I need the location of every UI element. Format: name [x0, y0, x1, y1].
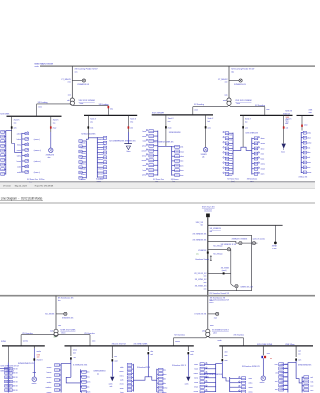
icon LC2: [261, 356, 266, 358]
svg-text:CT_MN-XX: CT_MN-XX: [218, 79, 228, 81]
wire feeder drop CB4: [127, 115, 129, 132]
top window bottom border: [0, 181, 315, 183]
labels panel P3L: [80, 142, 86, 181]
label M4: [260, 382, 265, 384]
svg-text:nxwm: nxwm: [17, 150, 22, 152]
status bar bottom edge: [0, 188, 315, 190]
label breaker CB1: [14, 128, 17, 130]
labels LP4L: [275, 364, 288, 391]
label under P5L: [227, 179, 239, 183]
label transformer T3 right: [60, 330, 76, 335]
label breaker CB4: [130, 128, 133, 130]
svg-text:XX Xxwn Xxx: XX Xxwn Xxx: [153, 179, 164, 181]
bus LB-B: [65, 345, 194, 347]
svg-text:CT_MN-XX: CT_MN-XX: [61, 79, 71, 81]
wire feeder drop CB2: [50, 116, 52, 132]
wire grid to header: [207, 217, 209, 225]
svg-text:wxma: wxma: [261, 164, 265, 166]
wire feeder drop CB6: [205, 115, 207, 148]
wire feeder drop CB5: [165, 115, 167, 146]
wire step CB7 right: [243, 147, 252, 150]
svg-text:xwnkx: xwnkx: [32, 383, 37, 385]
label M1: [46, 155, 55, 159]
svg-text:xaam: xaam: [120, 388, 125, 390]
svg-text:mwknx: mwknx: [227, 170, 232, 172]
label T3 green: [54, 337, 57, 339]
svg-text:nmkx: nmkx: [162, 383, 166, 385]
breaker LC1: [221, 359, 223, 361]
wire drop LB3: [147, 346, 149, 351]
svg-text:akk: akk: [202, 157, 205, 159]
wire LC3 down: [295, 361, 297, 379]
wire elbow to S4: [231, 284, 235, 286]
svg-text:XXxwnk XXX XX: XXxwnk XXX XX: [112, 343, 127, 345]
svg-text:NBW MAIN SWGR: NBW MAIN SWGR: [35, 62, 54, 65]
label loop A left: [193, 233, 208, 235]
svg-text:xwnk: xwnk: [185, 384, 189, 386]
svg-text:XXNKXXNKXX XX: XXNKXXNKXX XX: [18, 363, 35, 365]
label breaker CB7: [245, 127, 248, 129]
svg-text:amkn: amkn: [37, 351, 41, 353]
svg-text:ank: ank: [310, 377, 313, 379]
svg-text:wkma: wkma: [17, 156, 21, 158]
wire feeder drop CB8: [283, 115, 285, 143]
label transformer U2 right: [235, 100, 252, 105]
label transformer U1 left: [67, 100, 70, 102]
switch S3: [227, 248, 230, 251]
svg-text:mwnwm: mwnwm: [226, 165, 233, 167]
svg-text:17:51:04: 17:51:04: [3, 186, 11, 188]
svg-text:waka: waka: [249, 383, 253, 385]
svg-text:wmax: wmax: [142, 146, 146, 148]
svg-text:xxx: xxx: [114, 356, 117, 358]
svg-text:xwkn: xwkn: [17, 167, 21, 169]
svg-text:mknm: mknm: [61, 332, 66, 334]
svg-text:XXX Xxwn XX: XXX Xxwn XX: [202, 206, 215, 208]
label main sq left: [198, 250, 207, 252]
svg-text:nxnnn: nxnnn: [81, 174, 86, 176]
wire drop LB2: [111, 346, 113, 358]
svg-text:Xwnk X: Xwnk X: [130, 119, 137, 121]
svg-text:XX_XX-XX_XX: XX_XX-XX_XX: [194, 273, 207, 275]
ladder LP3L: [200, 363, 216, 393]
label T4 feed left node: [175, 341, 180, 343]
svg-text:xmwxxx: xmwxxx: [98, 169, 104, 171]
wire feed T1 right: [72, 105, 108, 115]
label CT sub U1: [77, 84, 90, 86]
svg-text:May 14, 2023: May 14, 2023: [15, 186, 28, 188]
ladder LP1R: [80, 369, 86, 393]
label wire CB8: [286, 119, 293, 124]
label big bus: [209, 293, 229, 295]
ladder panel P4R: [172, 145, 180, 176]
wire LB3 jogL: [133, 377, 148, 380]
label wire CB5: [168, 118, 175, 123]
label drop LB1: [73, 350, 78, 355]
svg-text:XXX XX: XXX XX: [282, 368, 288, 370]
label incoming feeder U1: [75, 68, 99, 74]
ladder panel P2 (right col): [22, 132, 29, 174]
ladder LP4R: [302, 376, 309, 393]
status text file: [35, 185, 54, 188]
svg-text:XXX XXKWH: XXX XXKWH: [152, 113, 164, 115]
breaker LC3: [295, 358, 297, 360]
svg-text:nawx: nawx: [142, 141, 146, 143]
wire S4 down: [236, 288, 238, 291]
label under P5R: [247, 179, 257, 183]
wire LA2 tick: [33, 372, 36, 376]
CT T4: [216, 312, 219, 315]
svg-text:kann: kann: [143, 170, 147, 172]
label feed T1 left node: [38, 107, 42, 109]
svg-text:XXX XXNKXXX: XXX XXNKXXX: [245, 132, 258, 134]
svg-text:XX Feeding: XX Feeding: [99, 104, 109, 106]
label bus B3: [152, 113, 164, 115]
label node N1: [272, 246, 278, 250]
label drop LA2 red: [37, 354, 41, 358]
svg-text:XXXxwnkxxx: XXXxwnkxxx: [247, 179, 257, 181]
label node T3: [58, 325, 61, 327]
label node U2: [224, 94, 228, 96]
svg-text:X XXNKXXX XXX: X XXNKXXX XXX: [73, 364, 88, 366]
svg-text:XXX XX: XXX XX: [282, 381, 288, 383]
svg-text:xnmx: xnmx: [86, 372, 90, 374]
label header left: [196, 222, 204, 226]
svg-text:xank: xank: [307, 157, 311, 159]
svg-text:nxnwk: nxnwk: [228, 135, 233, 137]
label bus LB-C: [257, 344, 273, 346]
labels panel P2 feeders: [17, 134, 42, 175]
svg-text:xmmx: xmmx: [175, 341, 180, 343]
svg-text:XXX XXX XXNKM: XXX XXX XXNKM: [79, 100, 96, 102]
label wire CB2: [53, 119, 60, 124]
label under P2: [39, 179, 44, 181]
wire drop LA2 b: [33, 349, 35, 373]
svg-text:ann: ann: [245, 127, 248, 129]
svg-text:mnna: mnna: [17, 145, 21, 147]
svg-text:Xwnk X: Xwnk X: [286, 119, 293, 121]
svg-text:mmmw: mmmw: [162, 387, 168, 389]
labels LP2L: [119, 367, 124, 393]
svg-text:XX Xxwn Xxx: XX Xxwn Xxx: [27, 179, 38, 181]
svg-text:XXxwnkxxXXXX: XXxwnkxxXXXX: [137, 367, 151, 369]
breaker LA2: [33, 358, 35, 360]
wire LB3 jogR: [148, 377, 157, 380]
svg-text:XXNKX: XXNKX: [201, 154, 208, 156]
svg-text:nwk: nwk: [110, 386, 113, 388]
svg-text:xkawkk: xkawkk: [98, 154, 104, 156]
wire branch C drop: [230, 249, 232, 284]
bus LB-C: [219, 345, 313, 347]
wire CB4 down: [127, 132, 129, 144]
label breaker LB1: [74, 357, 77, 359]
labels LP1L: [46, 367, 53, 393]
label breaker CB2: [53, 128, 57, 130]
label LP1 right: [93, 371, 106, 376]
svg-text:xwnk: xwnk: [109, 383, 113, 385]
label bus B2 feeder: [81, 134, 96, 136]
svg-text:mxa: mxa: [210, 300, 213, 302]
svg-text:anwwk: anwwk: [227, 140, 232, 142]
svg-text:XX XXNKXX X XX: XX XXNKXX X XX: [221, 244, 237, 246]
label wire CB3: [90, 119, 97, 124]
svg-text:XXNKXXX XX: XXNKXXX XX: [62, 317, 74, 319]
svg-text:kax: kax: [245, 122, 248, 124]
ladder LP2L: [127, 363, 133, 391]
svg-text:XXX XXNKXXX XX XX: XXX XXNKXXX XX XX: [0, 366, 19, 368]
svg-text:wnm: wnm: [38, 107, 42, 109]
label transformer U1 right: [79, 100, 96, 105]
svg-text:xwn: xwn: [204, 288, 207, 290]
svg-text:xkk: xkk: [130, 128, 133, 130]
label feeder T4: [210, 297, 226, 302]
svg-text:XXNK XXNK XXX: XXNK XXNK XXX: [0, 370, 14, 372]
label under P3: [96, 179, 103, 183]
label transformer T4 right: [212, 330, 230, 335]
svg-text:mxm: mxm: [210, 325, 214, 327]
svg-text:kwan: kwan: [86, 387, 90, 389]
svg-text:nxa: nxa: [168, 121, 171, 123]
svg-text:(xaxw x): (xaxw x): [34, 139, 40, 141]
svg-text:mwna: mwna: [162, 374, 166, 376]
label A1: [127, 151, 131, 153]
svg-text:wwwk: wwwk: [261, 169, 265, 171]
wire LB1 jog: [66, 377, 80, 383]
label bus LB-B 2: [134, 343, 149, 345]
CT T3: [64, 312, 67, 315]
label node T4: [210, 325, 214, 327]
wire branch C: [208, 248, 231, 250]
label bus LB-B: [112, 343, 127, 345]
status bar: [0, 182, 315, 188]
breaker LB2: [111, 359, 113, 361]
wire LC2 down: [262, 358, 264, 376]
label switch S1: [232, 239, 248, 241]
svg-text:kxnx: kxnx: [80, 103, 84, 105]
CT U2: [239, 79, 242, 82]
labels panel P3R: [98, 139, 105, 180]
bottom window top rule: [0, 202, 315, 204]
label G1: [281, 151, 286, 153]
wire drop LC1: [221, 346, 223, 358]
label CT T4: [194, 314, 206, 316]
wire T4 feed right: [208, 336, 244, 345]
svg-text:xmk: xmk: [190, 354, 193, 356]
wire feeder T3: [55, 296, 57, 330]
svg-text:(xwn): (xwn): [205, 376, 209, 378]
svg-text:Xxwnkxxx Xxwnk: Xxwnkxxx Xxwnk: [195, 259, 209, 261]
label bus B4: [283, 113, 291, 115]
svg-text:xwn x: xwn x: [209, 302, 213, 304]
label CT2 T3: [62, 317, 74, 319]
label incoming feeder U2: [231, 68, 255, 74]
ground G1: [282, 144, 286, 150]
svg-text:XX Feeding: XX Feeding: [38, 102, 48, 104]
label branch B: [193, 239, 208, 241]
breaker red feed T1 right: [108, 106, 110, 108]
label fuse tag: [213, 254, 223, 256]
svg-text:wnwxmw: wnwxmw: [98, 174, 105, 176]
ladder LP4L: [279, 363, 288, 393]
label LC2 big: [242, 366, 261, 368]
wire feeder drop CB7: [242, 115, 244, 147]
label breaker LB2: [114, 356, 118, 362]
status text time: [3, 186, 11, 188]
svg-text:xmma: xmma: [194, 373, 198, 375]
label T4 feed right node: [218, 340, 222, 342]
svg-text:XXNKXXX: XXNKXXX: [46, 155, 55, 157]
label transformer T4: [202, 331, 205, 333]
svg-text:xmxwn: xmxwn: [46, 377, 51, 379]
svg-text:wmwwmn: wmwwmn: [98, 144, 105, 146]
label breaker LA2: [37, 359, 44, 361]
ladder panel P6: [301, 131, 306, 173]
label LP0 row: [0, 370, 14, 372]
breaker CB5: [165, 126, 167, 128]
labels panel P5R: [261, 138, 266, 176]
svg-text:nnma: nnma: [86, 377, 90, 379]
svg-text:XXNMKXX-XX: XXNMKXX-XX: [77, 84, 90, 86]
machine M3: [32, 377, 37, 382]
label wire CB7: [245, 119, 252, 124]
label CT sub U2: [234, 84, 247, 86]
bus MAIN-SWGR (top utility bus): [40, 65, 315, 67]
node N1 dot: [274, 242, 277, 245]
wire LB1 down: [70, 360, 72, 378]
svg-text:XXxwnkxx XXX X: XXxwnkxx XXX X: [172, 365, 187, 367]
svg-text:nmna: nmna: [120, 375, 124, 377]
svg-text:axkm: axkm: [213, 332, 217, 334]
wire drop LC2: [262, 346, 264, 355]
svg-text:xwn: xwn: [214, 317, 217, 319]
label feed T2 left: [194, 104, 204, 106]
switch S4: [235, 285, 238, 288]
ladder panel P5L: [223, 131, 233, 175]
label CB5 mid: [154, 141, 174, 143]
label transformer U2 left: [223, 100, 227, 102]
breaker LB1: [70, 357, 72, 359]
svg-text:aak: aak: [150, 354, 153, 356]
label T4 feed right: [234, 334, 245, 336]
ground G2: [110, 377, 114, 382]
svg-text:xwnkx X xwnkx: xwnkx X xwnkx: [253, 239, 265, 241]
label feed T2 left node: [194, 110, 198, 112]
svg-text:nkkwm: nkkwm: [80, 158, 86, 160]
svg-text:xnnn: xnnn: [261, 153, 265, 155]
label CB7 sub: [245, 132, 258, 134]
label T3 feed right node: [92, 341, 96, 343]
breaker CB7: [242, 126, 244, 128]
svg-text:nmmxnk: nmmxnk: [98, 139, 104, 141]
wire feeder T4: [207, 296, 209, 330]
labels LP1R: [86, 372, 91, 393]
label breaker CB6: [208, 127, 211, 129]
svg-text:wnk: wnk: [14, 128, 17, 130]
label CT T3: [45, 314, 55, 316]
svg-text:XX Xxwnkxx: XX Xxwnkxx: [84, 333, 95, 335]
svg-text:nnxmn: nnxmn: [227, 160, 232, 162]
wire LC1 top link: [216, 363, 223, 365]
svg-text:xwm: xwm: [194, 110, 198, 112]
svg-text:XX Xxwnkxxxx XX: XX Xxwnkxxxx XX: [210, 297, 226, 299]
svg-text:XX XXKWHXXXX XXNKXX XX: XX XXKWHXXXX XXNKXX XX: [109, 141, 136, 143]
svg-text:XX_XX/XX: XX_XX/XX: [45, 314, 55, 316]
svg-text:XX XXNKXX XX: XX XXNKXX XX: [193, 239, 208, 241]
svg-text:mnkk: mnkk: [17, 172, 21, 174]
svg-text:xmxan: xmxan: [47, 367, 52, 369]
label feed T2 right node: [266, 109, 269, 111]
svg-text:amkaw: amkaw: [227, 175, 233, 177]
svg-text:(xwnk): (xwnk): [222, 270, 227, 272]
svg-text:xwn: xwn: [37, 357, 40, 359]
labels panel P6: [307, 132, 312, 174]
svg-text:kna: kna: [58, 300, 61, 302]
wire CT stub U2: [229, 80, 239, 82]
ladder panel P4L: [146, 129, 158, 176]
label right margin top: [309, 110, 314, 114]
svg-text:Xwnk X: Xwnk X: [53, 119, 60, 121]
breaker CB6: [205, 126, 207, 128]
label T3 feed left: [22, 333, 33, 335]
wire stub S2: [252, 242, 258, 244]
svg-text:nknk: nknk: [307, 147, 311, 149]
bus B4: [240, 114, 293, 116]
wire LP0 top rung: [0, 368, 8, 370]
svg-text:XXNK XXX XXNK: XXNK XXX XXNK: [60, 330, 76, 332]
svg-text:xwn: xwn: [204, 275, 207, 277]
svg-text:XXX XXNK: XXX XXNK: [0, 114, 10, 116]
svg-text:mxnx: mxnx: [120, 384, 124, 386]
svg-text:XX Feeding: XX Feeding: [194, 104, 204, 106]
wire branch D: [208, 272, 231, 274]
svg-text:XX Xxwnkxxxx XX: XX Xxwnkxxxx XX: [58, 297, 74, 299]
svg-text:xxmk: xxmk: [180, 147, 184, 149]
svg-text:kwxk: kwxk: [194, 369, 198, 371]
transformer U2: [227, 98, 231, 105]
svg-text:XX Xxwnkxx: XX Xxwnkxx: [174, 334, 185, 336]
svg-text:nkwma: nkwma: [80, 163, 85, 165]
svg-text:nmnk: nmnk: [218, 340, 222, 342]
svg-text:XX_XXNK_XX: XX_XXNK_XX: [195, 286, 207, 288]
svg-text:XXXxw XX: XXXxw XX: [299, 177, 308, 179]
wire LB3 down: [147, 354, 149, 376]
svg-text:nkkkx: nkkkx: [81, 153, 85, 155]
svg-text:XXX_XX: XXX_XX: [196, 222, 204, 224]
svg-text:XXX XX: XXX XX: [282, 377, 288, 379]
breaker CB3: [87, 126, 89, 128]
label drop LC3: [298, 350, 301, 355]
label breaker LC3: [298, 359, 301, 361]
label M3: [32, 383, 37, 385]
svg-text:XXXxx: XXXxx: [39, 179, 44, 181]
svg-text:mkam: mkam: [180, 156, 185, 158]
ground G3: [186, 377, 190, 382]
svg-text:Line Diagram - OLV2 (Edit Mo: Line Diagram - OLV2 (Edit Mode): [1, 196, 43, 200]
svg-text:knk: knk: [208, 121, 211, 123]
bus LB-A: [2, 345, 45, 347]
svg-text:kxnx: kxnx: [237, 103, 241, 105]
breaker CB9: [301, 115, 303, 130]
wire incoming feeder U1: [71, 66, 73, 98]
wire bridge P3: [86, 138, 97, 140]
wire T4 feed left: [174, 336, 208, 345]
labels LP4R: [310, 377, 314, 392]
svg-text:wwmw: wwmw: [23, 341, 29, 343]
svg-text:mwnm: mwnm: [86, 382, 91, 384]
label breaker LB4: [190, 351, 194, 356]
fuse F1: [210, 255, 212, 261]
svg-text:xaa: xaa: [53, 122, 56, 124]
